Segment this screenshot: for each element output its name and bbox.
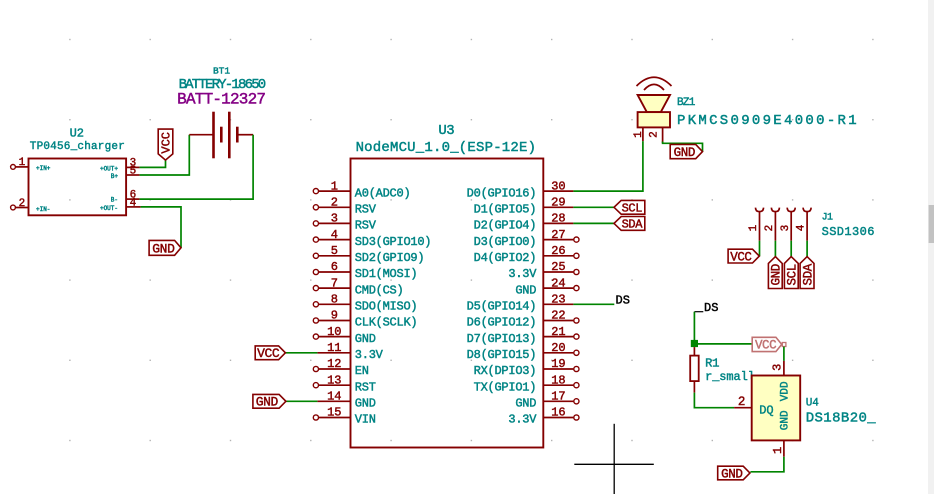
svg-text:GND: GND: [780, 410, 792, 430]
wire U2 pin5 to battery plus: [140, 135, 190, 175]
wire U3 pin28 to SDA label: [573, 222, 614, 224]
wire J1 pin1 to VCC flag: [759, 241, 761, 256]
svg-text:GND: GND: [515, 283, 536, 297]
svg-text:PKMCS0909E4000-R1: PKMCS0909E4000-R1: [677, 113, 859, 129]
svg-text:2: 2: [19, 198, 26, 210]
svg-text:+OUT-: +OUT-: [100, 205, 118, 212]
wire R1 bottom to U4 pin2 DQ: [694, 393, 734, 408]
svg-text:D7(GPIO13): D7(GPIO13): [467, 332, 537, 346]
U3 pin 22 D6(GPIO12): [467, 309, 579, 330]
svg-text:GND: GND: [355, 332, 376, 346]
svg-text:16: 16: [551, 406, 565, 420]
svg-text:13: 13: [327, 373, 341, 387]
svg-text:VDD: VDD: [780, 381, 792, 401]
U3 pin 10 GND: [313, 325, 375, 346]
wire VCC flag to U4 pin3: [783, 347, 785, 361]
wire J1 pin3 to SCL flag: [790, 241, 792, 257]
U3 pin 3 RSV: [313, 212, 376, 233]
svg-text:26: 26: [551, 244, 565, 258]
svg-text:A0(ADC0): A0(ADC0): [355, 186, 411, 200]
svg-text:EN: EN: [355, 364, 369, 378]
U3 pin 9 CLK(SCLK): [313, 309, 417, 330]
junction (DS node): [691, 340, 698, 347]
battery BT1: [189, 112, 253, 159]
svg-text:TP0456_charger: TP0456_charger: [30, 141, 125, 153]
U3 pin 29 D1(GPIO5): [474, 196, 574, 217]
U3 pin 15 VIN: [313, 406, 375, 427]
svg-text:B-: B-: [111, 197, 118, 204]
svg-text:6: 6: [331, 260, 338, 274]
svg-text:J1: J1: [822, 212, 833, 223]
connector J1 pins: [748, 208, 811, 241]
U3 pin 19 RX(DPIO3): [474, 357, 579, 378]
svg-text:U4: U4: [806, 398, 820, 410]
svg-text:VIN: VIN: [355, 413, 376, 427]
wire GND flag to U3 pin 14: [286, 400, 318, 402]
wire BZ1 pin2 to GND flag: [663, 142, 703, 152]
svg-text:28: 28: [551, 212, 565, 226]
svg-text:3: 3: [331, 212, 338, 226]
svg-text:GND: GND: [674, 146, 695, 160]
scrollbar: [928, 0, 934, 494]
svg-text:DS: DS: [616, 294, 630, 308]
power flag VCC (J1 pin1): [728, 249, 759, 264]
U2 pin 6 B-: [111, 189, 140, 203]
svg-text:11: 11: [327, 341, 341, 355]
svg-text:U2: U2: [70, 127, 84, 141]
svg-text:+IN+: +IN+: [36, 165, 51, 172]
svg-text:DS18B20_: DS18B20_: [806, 411, 877, 427]
svg-text:4: 4: [130, 197, 137, 209]
svg-text:24: 24: [551, 276, 565, 290]
svg-text:CLK(SCLK): CLK(SCLK): [355, 316, 418, 330]
svg-text:1: 1: [633, 131, 645, 138]
svg-text:D3(GPIO0): D3(GPIO0): [474, 235, 537, 249]
svg-text:14: 14: [327, 390, 341, 404]
ground flag GND (U2): [149, 240, 181, 256]
svg-text:D6(GPIO12): D6(GPIO12): [467, 316, 537, 330]
U3 pin 18 TX(GPIO1): [474, 373, 579, 394]
svg-text:30: 30: [551, 179, 565, 193]
svg-text:GND: GND: [256, 395, 279, 410]
U3 pin 27 D3(GPIO0): [474, 228, 579, 249]
U3 pin 6 SD1(MOSI): [313, 260, 417, 281]
U3 pin 7 CMD(CS): [313, 276, 403, 297]
ground flag GND (BZ1): [670, 144, 702, 160]
svg-text:18: 18: [551, 373, 565, 387]
svg-text:GND: GND: [355, 397, 376, 411]
svg-text:20: 20: [551, 341, 565, 355]
svg-text:4: 4: [796, 224, 808, 231]
svg-text:3.3V: 3.3V: [355, 348, 384, 362]
power flag VCC (U3 pin 11): [255, 346, 285, 361]
wire J1 pin4 to SDA flag: [806, 241, 808, 257]
wire U4 pin1 to GND flag: [750, 457, 784, 472]
svg-text:SD1(MOSI): SD1(MOSI): [355, 267, 418, 281]
svg-text:D4(GPIO2): D4(GPIO2): [474, 251, 537, 265]
svg-text:NodeMCU_1.0_(ESP-12E): NodeMCU_1.0_(ESP-12E): [356, 140, 537, 156]
svg-text:B+: B+: [111, 173, 119, 180]
U2 pin 3 OUT+: [100, 158, 140, 173]
U3 pin 24 GND: [515, 276, 579, 297]
U3 pin 11 3.3V: [317, 341, 383, 362]
svg-text:BATT-12327: BATT-12327: [177, 90, 265, 108]
svg-text:CMD(CS): CMD(CS): [355, 283, 404, 297]
svg-text:2: 2: [331, 196, 338, 210]
svg-text:RST: RST: [355, 380, 376, 394]
svg-text:2: 2: [738, 395, 746, 409]
svg-text:12: 12: [327, 357, 341, 371]
svg-text:9: 9: [331, 309, 338, 323]
svg-text:SDA: SDA: [801, 263, 815, 285]
cursor crosshair: [574, 424, 654, 494]
svg-text:15: 15: [327, 406, 341, 420]
U2 pin 2 IN-: [11, 198, 51, 213]
net label flag SDA (U3 pin28): [614, 217, 645, 232]
svg-text:r_small: r_small: [705, 370, 755, 384]
U3 pin 25 3.3V: [508, 260, 579, 281]
wire U3 pin29 to SCL label: [573, 206, 614, 208]
svg-text:+IN-: +IN-: [36, 206, 50, 213]
U3 pin 13 RST: [313, 373, 375, 394]
ground flag GND (U4): [718, 466, 750, 481]
svg-text:1: 1: [19, 157, 26, 169]
resistor R1: [690, 347, 699, 393]
svg-text:DQ: DQ: [759, 403, 773, 417]
svg-text:SSD1306: SSD1306: [822, 225, 875, 239]
IC U3 NodeMCU_1.0_(ESP-12E) body: [351, 159, 544, 448]
U3 pin 16 3.3V: [508, 406, 579, 427]
svg-text:1: 1: [771, 447, 785, 454]
U2 pin 4 OUT-: [100, 197, 141, 212]
net label DS (pull-up node): [694, 301, 718, 315]
svg-text:19: 19: [551, 357, 565, 371]
svg-text:SDO(MISO): SDO(MISO): [355, 300, 418, 314]
U4 pin 1 GND: [771, 410, 792, 457]
svg-text:22: 22: [551, 309, 565, 323]
svg-text:3: 3: [780, 225, 792, 232]
svg-text:8: 8: [331, 293, 338, 307]
svg-text:5: 5: [331, 244, 338, 258]
svg-text:25: 25: [551, 260, 565, 274]
ground flag GND (U3 pin 14): [253, 394, 286, 409]
U3 pin 12 EN: [313, 357, 368, 378]
svg-text:BT1: BT1: [213, 65, 230, 76]
U3 pin 5 SD2(GPIO9): [313, 244, 424, 265]
wire U3 pin30 to buzzer BZ1 pin1: [573, 141, 643, 191]
power flag VCC (U2 output): [158, 129, 173, 160]
wire U3 pin23 to net DS: [573, 303, 614, 305]
svg-text:GND: GND: [152, 241, 175, 256]
U3 pin 26 D4(GPIO2): [474, 244, 579, 265]
U2 pin 5 B+: [111, 166, 140, 180]
svg-text:3.3V: 3.3V: [508, 267, 537, 281]
U3 pin 4 SD3(GPIO10): [313, 228, 431, 249]
U3 pin 30 D0(GPIO16): [467, 179, 574, 200]
wire J1 pin2 to GND flag: [774, 241, 776, 257]
U4 pin 3 VDD: [771, 361, 792, 401]
wire battery minus to U2 pin6 B-: [140, 135, 254, 199]
IC U2 TP0456_charger body: [29, 159, 127, 216]
svg-text:2: 2: [764, 225, 776, 232]
svg-text:VCC: VCC: [755, 339, 776, 353]
svg-text:D5(GPIO14): D5(GPIO14): [467, 300, 537, 314]
svg-text:GND: GND: [770, 264, 784, 285]
svg-text:D0(GPIO16): D0(GPIO16): [467, 186, 537, 200]
svg-text:SDA: SDA: [622, 218, 644, 232]
svg-text:RX(DPIO3): RX(DPIO3): [474, 364, 537, 378]
svg-text:10: 10: [327, 325, 341, 339]
wire DS label to junction: [693, 312, 695, 344]
svg-text:2: 2: [648, 131, 660, 138]
U3 pin 23 D5(GPIO14): [467, 293, 574, 314]
svg-text:RSV: RSV: [355, 203, 377, 217]
svg-text:DS: DS: [704, 301, 718, 315]
U3 pin 21 D7(GPIO13): [467, 325, 579, 346]
U3 pin 17 GND: [515, 390, 579, 411]
wire U2 pin4 to GND flag: [141, 207, 181, 248]
svg-text:D1(GPIO5): D1(GPIO5): [474, 203, 537, 217]
svg-text:SD3(GPIO10): SD3(GPIO10): [355, 235, 431, 249]
svg-text:TX(GPIO1): TX(GPIO1): [474, 380, 537, 394]
svg-text:5: 5: [130, 166, 137, 178]
svg-text:3.3V: 3.3V: [508, 413, 537, 427]
svg-text:3: 3: [771, 364, 785, 371]
svg-text:RSV: RSV: [355, 219, 377, 233]
U3 pin 20 D8(GPIO15): [467, 341, 579, 362]
svg-text:4: 4: [331, 228, 338, 242]
svg-text:R1: R1: [705, 356, 719, 370]
svg-text:SCL: SCL: [622, 202, 643, 216]
svg-text:1: 1: [748, 224, 760, 231]
svg-text:SD2(GPIO9): SD2(GPIO9): [355, 251, 425, 265]
ground flag GND (J1 pin2): [768, 257, 783, 289]
svg-text:BZ1: BZ1: [677, 97, 696, 109]
svg-text:27: 27: [551, 228, 565, 242]
svg-text:D2(GPIO4): D2(GPIO4): [474, 219, 537, 233]
power flag VCC (highlighted, U4 VDD net): [752, 337, 786, 352]
wire VCC flag to U3 pin 11: [285, 352, 317, 354]
svg-text:VCC: VCC: [257, 346, 280, 361]
net label flag SCL (U3 pin29): [614, 200, 645, 215]
svg-text:GND: GND: [515, 397, 536, 411]
svg-text:1: 1: [331, 179, 338, 193]
svg-text:D8(GPIO15): D8(GPIO15): [467, 348, 537, 362]
net flag SDA (J1 pin4): [800, 257, 815, 289]
svg-text:7: 7: [331, 276, 338, 290]
wire U2 pin3 to VCC flag: [140, 160, 166, 167]
svg-text:GND: GND: [721, 467, 742, 481]
wire junction to VCC flag: [698, 343, 753, 345]
svg-text:21: 21: [551, 325, 565, 339]
svg-text:U3: U3: [438, 123, 454, 139]
svg-text:23: 23: [551, 293, 565, 307]
svg-text:17: 17: [551, 390, 565, 404]
U3 pin 2 RSV: [313, 196, 376, 217]
U4 pin 2 DQ: [734, 395, 774, 417]
buzzer BZ1: [633, 77, 672, 143]
svg-text:SCL: SCL: [786, 264, 800, 285]
U3 pin 28 D2(GPIO4): [474, 212, 574, 233]
svg-text:VCC: VCC: [159, 132, 173, 154]
svg-text:VCC: VCC: [730, 250, 751, 264]
U3 pin 1 A0(ADC0): [313, 179, 410, 200]
U3 pin 14 GND: [317, 390, 375, 411]
U2 pin 1 IN+: [11, 157, 51, 172]
svg-text:+OUT+: +OUT+: [100, 165, 118, 172]
U3 pin 8 SDO(MISO): [313, 293, 417, 314]
svg-text:29: 29: [551, 196, 565, 210]
IC U4 DS18B20 body: [752, 376, 801, 441]
net flag SCL (J1 pin3): [784, 257, 799, 289]
